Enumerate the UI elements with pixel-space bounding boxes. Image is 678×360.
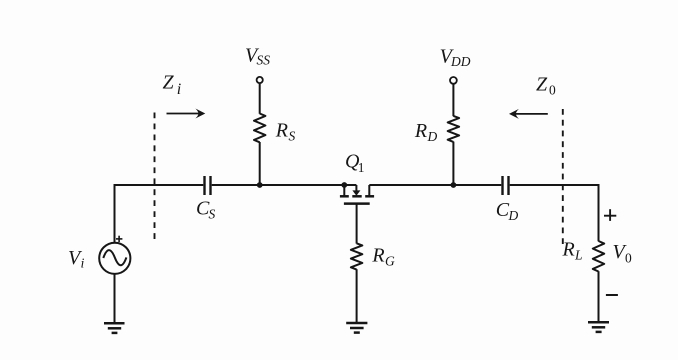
svg-text:Z: Z <box>536 74 548 96</box>
svg-text:Z: Z <box>163 72 175 94</box>
svg-text:0: 0 <box>549 83 556 98</box>
svg-text:R: R <box>414 120 427 142</box>
svg-text:L: L <box>574 248 583 263</box>
svg-text:SS: SS <box>257 53 271 68</box>
svg-text:R: R <box>562 239 575 261</box>
svg-text:DD: DD <box>450 54 471 69</box>
svg-text:i: i <box>81 257 85 272</box>
svg-text:S: S <box>209 207 216 222</box>
svg-text:i: i <box>177 81 181 98</box>
svg-text:R: R <box>371 245 384 267</box>
svg-text:S: S <box>289 129 296 144</box>
svg-text:1: 1 <box>358 160 365 175</box>
svg-text:D: D <box>427 129 438 144</box>
svg-text:0: 0 <box>625 251 632 266</box>
svg-text:D: D <box>508 208 519 223</box>
svg-text:R: R <box>275 120 288 142</box>
svg-text:G: G <box>385 254 395 269</box>
